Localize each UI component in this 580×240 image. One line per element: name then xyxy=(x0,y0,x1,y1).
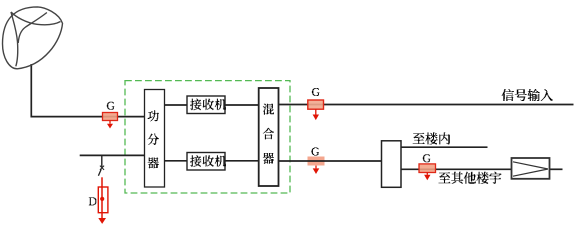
wire: mixer top output to signal-input terminal xyxy=(279,104,574,106)
wire: junction drop toward arrester D xyxy=(101,155,103,167)
wire: amplifier output stub xyxy=(550,168,563,170)
arrester G2 border xyxy=(308,100,324,109)
dish feed horn lower curve xyxy=(11,12,18,66)
arrester G1 earth arrow xyxy=(109,121,111,124)
amplifier triangle symbol xyxy=(513,162,548,176)
wire: splitter to building interior xyxy=(401,146,488,148)
arrester G4 body fill xyxy=(419,164,436,173)
text 接收机 (receiver 1) xyxy=(190,99,201,111)
arrester G3 earth arrow xyxy=(315,166,317,169)
arrester D conductor xyxy=(101,177,103,218)
arrester G3 body fill xyxy=(308,157,325,166)
splitter box xyxy=(382,141,402,188)
mixer box 混合器 xyxy=(259,88,279,186)
arrester G1 border xyxy=(103,113,118,121)
wire: divider to receiver 1 xyxy=(165,104,188,106)
arrester G4 earth arrow xyxy=(426,173,428,175)
label D xyxy=(89,197,97,205)
text 至其他楼宇 (to other buildings) xyxy=(439,172,451,183)
arrester G4 border xyxy=(419,164,436,173)
wire: receiver 1 to mixer xyxy=(225,104,259,106)
label G4 xyxy=(423,154,431,162)
green dashed enclosure xyxy=(125,81,290,193)
text 信号输入 (signal input) xyxy=(502,89,514,101)
power divider box 功分器 xyxy=(145,90,165,188)
arrester D earth arrow xyxy=(98,218,106,224)
dish inner face arc xyxy=(18,13,47,44)
receiver box 1 xyxy=(187,96,225,114)
label G1 xyxy=(107,102,115,110)
satellite dish rim xyxy=(3,7,63,69)
dish feed horn upper curve xyxy=(11,12,61,25)
text 混合器 (mixer) xyxy=(263,104,274,115)
text 接收机 (receiver 2) xyxy=(190,155,201,167)
wire: mixer bottom output to splitter xyxy=(279,160,382,162)
amplifier box xyxy=(512,158,550,179)
wire: splitter toward other buildings xyxy=(401,168,512,170)
arrester D body xyxy=(98,187,108,213)
spark gap x mark xyxy=(100,166,104,170)
wire: receiver 2 to mixer xyxy=(225,160,259,162)
label G2 xyxy=(312,88,320,96)
arrester G1 body fill xyxy=(103,113,118,121)
label G3 xyxy=(311,148,319,156)
wire: antenna down-lead and first input line to power divider xyxy=(31,64,144,117)
arrester G2 body fill xyxy=(308,100,324,109)
spark gap slanted contact xyxy=(98,169,101,176)
arrester G2 earth arrow xyxy=(315,110,317,115)
text 至楼内 (to building interior) xyxy=(413,133,425,144)
wire: divider to receiver 2 xyxy=(165,160,188,162)
receiver box 2 xyxy=(187,153,225,171)
text 功分器 (power divider) xyxy=(148,110,159,122)
wire: second input line xyxy=(80,154,145,156)
arrester D electrode dot xyxy=(100,197,104,201)
